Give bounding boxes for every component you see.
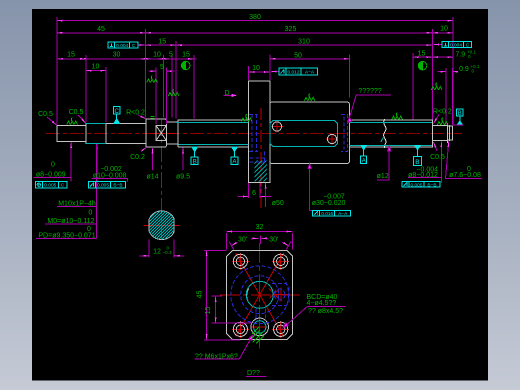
hidden drill passage to M6 (255, 309, 257, 322)
dim 10 flange line (249, 71, 270, 73)
30deg slant ext left (229, 242, 234, 250)
svg-text:C: C (132, 43, 136, 49)
30deg arc right inner (261, 237, 268, 240)
svg-text:C0.5: C0.5 (38, 111, 53, 118)
ext 156 (155, 68, 157, 125)
svg-text:??????: ?????? (358, 88, 381, 95)
dim 10 top-right line (432, 32, 453, 34)
dim 10 lower line (86, 70, 106, 72)
section circle horizontal centerline (143, 224, 180, 226)
15 ext top (212, 295, 222, 297)
roughness sym above X-block (147, 75, 158, 82)
svg-text:0: 0 (468, 54, 471, 59)
shaft seg2 o10 journal (86, 123, 106, 143)
dim 12 ext lines (148, 240, 150, 258)
flange side-view vertical centerline (260, 108, 262, 208)
relief segment (166, 122, 178, 144)
svg-text:15: 15 (182, 52, 190, 59)
ext 86 (85, 55, 87, 122)
screw body right of nut (350, 120, 433, 147)
svg-text:B−B: B−B (113, 183, 122, 189)
datum C triangle+stem (114, 114, 120, 123)
fcf box perp 0.004 C top-left (108, 42, 138, 49)
hatch M6 hole green (251, 327, 264, 344)
leader o12 (377, 147, 389, 180)
svg-text:380: 380 (249, 14, 261, 21)
hidden circle nut OD bottom view (231, 266, 289, 324)
leader ?????? (348, 95, 391, 122)
svg-text:30': 30' (269, 237, 278, 244)
nut bore rect (270, 121, 338, 147)
dim 15 right line (413, 56, 433, 58)
svg-text:B: B (458, 111, 462, 117)
ext 193.9 (193, 55, 195, 119)
shaft X-block o14 (146, 119, 167, 147)
screw body left of nut (178, 120, 249, 147)
leader o10 label (96, 144, 98, 178)
svg-text:A−A: A−A (338, 211, 348, 217)
datum box C (114, 107, 120, 115)
svg-text:0.005: 0.005 (44, 183, 56, 189)
ext 106 (105, 67, 107, 122)
datum box B2 (413, 157, 421, 166)
ext 56.8 (56, 17, 58, 124)
svg-text:B: B (415, 159, 420, 166)
ext 412.8 (412, 53, 414, 120)
bolt circle diagonal centerline 2 (236, 253, 284, 336)
svg-text:5: 5 (160, 64, 164, 71)
bolt hole crosshair BR (272, 321, 289, 338)
svg-text:0.016: 0.016 (321, 211, 333, 217)
flange bottom-view horizontal centerline (220, 294, 300, 296)
screw top edge visible left of nut start (177, 121, 179, 123)
svg-text:ø14: ø14 (146, 173, 158, 180)
svg-text:30': 30' (238, 237, 247, 244)
svg-text:0.004: 0.004 (450, 42, 462, 48)
svg-text:15: 15 (205, 307, 212, 315)
svg-text:ø12: ø12 (377, 173, 389, 180)
leader o7.6 (446, 142, 482, 179)
ext 248.7 (248, 66, 250, 80)
svg-text:PD=ø9.350−0.071: PD=ø9.350−0.071 (38, 233, 95, 240)
leader o30 (310, 164, 312, 210)
svg-text:ø9.5: ø9.5 (176, 173, 190, 180)
leader C0.5 right (434, 142, 438, 151)
hidden return tube circle (274, 289, 285, 300)
ext 446 groove (445, 68, 447, 125)
nut flange disk side view (249, 81, 270, 183)
row ticks arrows (80, 58, 86, 60)
datum box end (457, 109, 464, 117)
svg-text:15: 15 (158, 38, 166, 45)
screw root lines left (179, 121, 249, 123)
shaft main centerline (46, 133, 462, 135)
svg-text:32: 32 (256, 224, 264, 231)
o8 label underline (34, 176, 72, 178)
svg-text:0.012: 0.012 (287, 69, 299, 75)
hatch section circle (113, 208, 211, 243)
svg-text:10: 10 (440, 26, 448, 33)
D?? underline (246, 375, 267, 377)
15 ext bottom (212, 322, 252, 324)
M6 hole circle (254, 321, 266, 333)
D arrow (224, 94, 234, 96)
dim 380 line (57, 20, 453, 22)
svg-text:0.9: 0.9 (459, 66, 469, 73)
hidden circle screw OD bottom view (241, 276, 279, 314)
ext 432.3 (431, 29, 433, 120)
roughness sym on o8 end (437, 118, 448, 125)
svg-text:ø30−0.020: ø30−0.020 (312, 200, 346, 207)
svg-text:C0.2: C0.2 (130, 154, 145, 161)
grease hole cross 2 (326, 133, 338, 145)
svg-text:325: 325 (285, 26, 297, 33)
svg-text:ø8−0.012: ø8−0.012 (408, 172, 438, 179)
roughness sym on screw right (392, 112, 403, 119)
bolt hole BL (233, 322, 247, 336)
ext 172 (171, 55, 173, 118)
ext 163.7 (163, 55, 165, 118)
svg-text:M0=ø10−0.112: M0=ø10−0.112 (47, 218, 94, 225)
svg-text:ø7.6−0.08: ø7.6−0.08 (449, 172, 481, 179)
dim 45 line (57, 32, 146, 34)
circlip groove (449, 125, 451, 141)
leader R02 right (434, 115, 440, 124)
leader M10 text block vertical (96, 144, 98, 238)
dim 15 row3 line (146, 44, 177, 46)
svg-text:C0.5: C0.5 (430, 154, 445, 161)
leader o9.5 (182, 148, 184, 170)
leader C0.2 (141, 147, 147, 151)
datum box B (191, 157, 198, 165)
hidden return tube outline (272, 284, 289, 306)
svg-text:C: C (115, 109, 120, 115)
leader C0.5 left2 (78, 115, 86, 123)
svg-text:B: B (193, 158, 197, 165)
screw break squiggle (384, 119, 386, 148)
svg-text:0.004: 0.004 (116, 43, 128, 49)
45 ext top (204, 249, 227, 251)
datum A triangle+stem under screw (232, 147, 238, 157)
svg-text:10: 10 (153, 51, 161, 58)
hidden bracket nut right inside (341, 115, 348, 152)
o10 label underline (92, 178, 129, 180)
nut body side view (270, 102, 350, 164)
o8 end journal (433, 123, 448, 143)
fcf box runout 0.005 B-B under o10 (89, 182, 126, 189)
fcf box position 0.005 C left-under (35, 182, 67, 189)
svg-text:0.005: 0.005 (97, 183, 109, 189)
bolt hole TR (274, 254, 288, 268)
center bore gray arc (247, 289, 249, 302)
roughness sym on nut top (304, 94, 315, 101)
seg2 ground top/bottom (86, 122, 106, 124)
break hatch tick (381, 137, 384, 142)
roughness sym on seg2 (67, 117, 78, 124)
centerline bright segment mid (150, 133, 176, 135)
bore cyan circle (246, 281, 273, 308)
dim row 15/30/10/5/15 line (57, 58, 196, 60)
svg-text:0: 0 (51, 161, 55, 168)
box1 leader (138, 44, 145, 46)
svg-text:ø8−0.009: ø8−0.009 (36, 172, 66, 179)
svg-text:45: 45 (97, 26, 105, 33)
datum A2 triangle+stem (361, 145, 367, 156)
45 ext bottom (204, 339, 240, 341)
svg-text:310: 310 (298, 39, 310, 46)
X-box inner (156, 126, 166, 141)
svg-text:4−ø4.5??: 4−ø4.5?? (307, 300, 337, 307)
fcf box perp 0.004 C top-right (442, 42, 472, 49)
svg-text:10: 10 (92, 63, 100, 70)
box3 leader (271, 71, 279, 73)
grease port circle 2 (327, 134, 336, 143)
svg-text:6: 6 (252, 190, 256, 197)
dim 32 bottom view (226, 231, 292, 233)
30deg center tick (259, 236, 261, 244)
grease hole cross 1 (271, 121, 283, 133)
svg-text:0: 0 (472, 69, 475, 74)
dim 325 line (146, 32, 433, 34)
hidden lines in flange disk (251, 114, 253, 152)
30deg arc right outer (282, 242, 288, 245)
svg-text:C: C (466, 42, 470, 48)
leader o14 (152, 148, 154, 170)
bolt hole BR (274, 322, 288, 336)
roughness sym at screw start (168, 89, 179, 96)
bolt hole crosshair TR (272, 253, 289, 270)
ext 349.5 (349, 55, 351, 98)
section circle with flats (149, 211, 174, 240)
half-filled circle sym right (418, 61, 427, 70)
svg-text:R<0.2: R<0.2 (126, 110, 145, 117)
bolt circle diagonal centerline 1 (236, 253, 284, 336)
ext 269.8 (269, 55, 271, 81)
vertical centerline through X-block down to section circle (161, 120, 163, 242)
svg-text:C: C (61, 183, 65, 189)
return tube cross (269, 288, 289, 302)
ext 453 (452, 17, 454, 125)
dim 50 line (270, 58, 350, 60)
leader BCD (284, 307, 346, 328)
leader M6 (195, 336, 253, 360)
svg-text:M10x1P−4h: M10x1P−4h (58, 201, 96, 208)
leader o8 label (70, 142, 72, 177)
datum B2 triangle+stem (415, 145, 421, 156)
dim 12 arrows outside (140, 255, 150, 257)
svg-text:B−B: B−B (427, 182, 436, 188)
dim 7.9 line (432, 56, 453, 58)
datum B triangle+stem under screw (192, 147, 198, 157)
M6 counterbore circle (251, 318, 269, 336)
X-box diagonals (156, 126, 166, 141)
svg-text:30: 30 (113, 51, 121, 58)
svg-text:5: 5 (169, 51, 173, 58)
datum end triangle+stem (457, 116, 463, 125)
fcf box runout 0.016 A-A nut (313, 210, 351, 217)
shaft seg1 o8 journal (57, 125, 86, 141)
half-filled circle sym left (181, 61, 190, 70)
roughness sym near 0.9 ext (431, 83, 442, 90)
M10 underline (57, 206, 97, 208)
svg-text:15: 15 (67, 51, 75, 58)
svg-text:?? M6x1Px6?: ?? M6x1Px6? (195, 354, 238, 361)
svg-text:0.005: 0.005 (410, 182, 422, 188)
svg-text:10: 10 (252, 65, 260, 72)
fcf box runout 0.005 B-A right-under (402, 181, 440, 188)
svg-text:15: 15 (418, 50, 426, 57)
svg-text:45: 45 (196, 291, 203, 299)
svg-text:A: A (362, 158, 366, 164)
dim 15 vertical (215, 296, 217, 323)
svg-text:−0.3: −0.3 (163, 250, 173, 255)
datum box A (231, 157, 238, 165)
screw root lines right (350, 121, 433, 123)
PD underline (36, 237, 97, 239)
box2 leader (433, 44, 442, 46)
ext 166.4 (165, 68, 167, 125)
dim 5 lower outside arrows (149, 70, 156, 72)
M0 underline (45, 223, 97, 225)
svg-text:ø10−0.008: ø10−0.008 (93, 173, 127, 180)
30deg arc left inner (251, 237, 258, 240)
datum box A2 (361, 156, 367, 164)
ext 145.5 (145, 29, 147, 118)
30deg arc left outer (232, 242, 238, 245)
M6 hole cross (252, 319, 269, 336)
dim 0.9 outside arrows (438, 71, 447, 73)
shaft seg3 M10 thread (106, 123, 146, 143)
bolt hole TL (233, 254, 247, 268)
svg-text:D??: D?? (247, 370, 260, 377)
hidden seal lines flange (249, 114, 258, 116)
svg-text:12: 12 (153, 248, 161, 255)
svg-text:0: 0 (88, 210, 92, 217)
30deg slant ext right (286, 242, 291, 250)
leader R02 left (138, 115, 146, 119)
o8-0.012 underline (408, 177, 441, 179)
dim 45 vertical (206, 250, 208, 339)
svg-text:50: 50 (294, 53, 302, 60)
flange bottom-view vertical centerline (259, 243, 261, 349)
svg-text:7.9: 7.9 (455, 52, 465, 59)
flange plate bottom view (227, 250, 293, 339)
datum ledge right end (453, 124, 464, 126)
ext 452.3 groove (451, 68, 453, 125)
svg-text:?? ø8x4.5?: ?? ø8x4.5? (308, 308, 343, 315)
svg-text:A−A: A−A (305, 69, 315, 75)
leader o8-0.012 (440, 141, 442, 183)
roughness sym on screw left (241, 114, 252, 121)
ext 176.2 (175, 41, 177, 119)
o7.6 end stub (448, 126, 453, 140)
bolt hole crosshair BL (232, 321, 249, 338)
leader o50 (265, 183, 267, 207)
fcf box runout 0.012 A-A mid (279, 68, 318, 75)
svg-text:C0.5: C0.5 (69, 109, 84, 116)
dim 6 (248, 183, 250, 198)
tiny thread mark above X-block (151, 117, 155, 119)
bolt hole crosshair TL (232, 253, 249, 270)
svg-text:R<0.2: R<0.2 (433, 109, 452, 116)
leader C0.5 left1 (47, 117, 57, 125)
svg-text:ø50: ø50 (272, 200, 284, 207)
grease port circle 1 (272, 122, 281, 131)
hatch flange section (250, 140, 278, 204)
dim 310 line (176, 44, 432, 46)
